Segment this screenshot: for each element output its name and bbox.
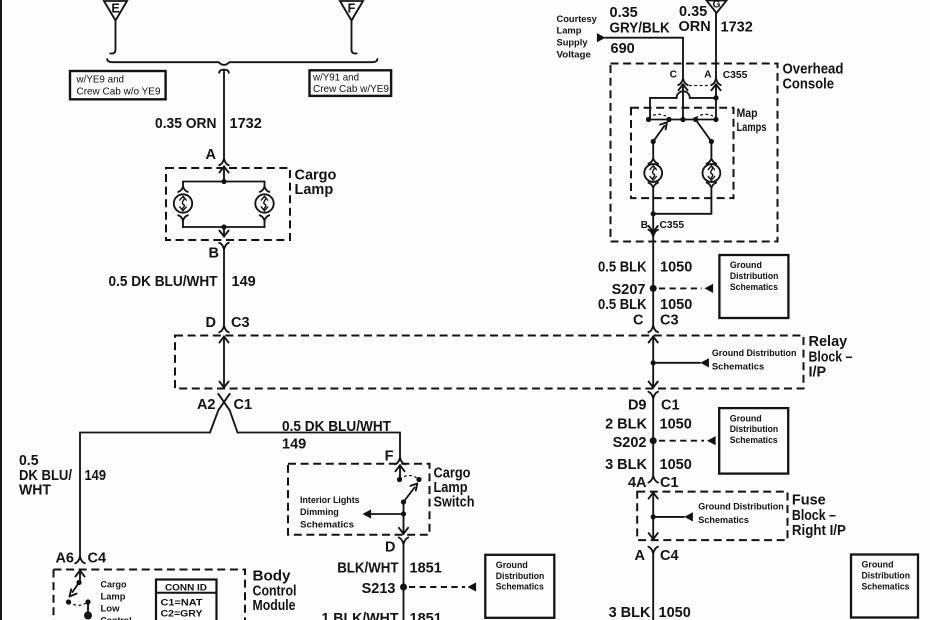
label Cargo Lamp Low Control xyxy=(101,579,132,620)
wire through relay block (left) xyxy=(219,337,228,388)
connector C C3 xyxy=(648,326,658,333)
svg-text:149: 149 xyxy=(282,437,306,453)
map lamps dashed box xyxy=(631,108,734,198)
connector A of C355 xyxy=(704,70,721,98)
svg-text:S202: S202 xyxy=(613,435,647,451)
pin B label xyxy=(209,246,219,262)
svg-text:C355: C355 xyxy=(660,220,685,231)
svg-text:GRY/BLK: GRY/BLK xyxy=(610,21,671,37)
svg-text:Distribution: Distribution xyxy=(496,570,545,581)
svg-text:Crew Cab w/YE9: Crew Cab w/YE9 xyxy=(313,84,389,95)
svg-text:Courtesy: Courtesy xyxy=(557,13,598,24)
CONN ID table xyxy=(156,580,217,620)
pin D / C3 labels xyxy=(206,315,250,331)
svg-text:E: E xyxy=(111,2,119,16)
wire split Y below A2 C1 xyxy=(210,410,238,432)
svg-text:Distribution: Distribution xyxy=(730,270,779,281)
label 0.5 DK BLU/WHT 149 xyxy=(109,274,256,290)
svg-text:C1: C1 xyxy=(660,475,679,491)
svg-text:Module: Module xyxy=(253,598,296,614)
off-page connector E xyxy=(104,1,127,21)
label Cargo Lamp Switch xyxy=(434,465,475,510)
map lamp switch dashed arcs xyxy=(649,114,717,118)
svg-text:3 BLK: 3 BLK xyxy=(609,605,651,620)
label Cargo Lamp xyxy=(295,168,337,199)
svg-text:1851: 1851 xyxy=(410,611,442,620)
svg-text:Control: Control xyxy=(253,583,297,599)
splice S202 xyxy=(613,435,716,451)
svg-text:C2=GRY: C2=GRY xyxy=(161,608,204,619)
label 0.35 ORN 1732 xyxy=(155,116,262,132)
connector A6 C4 xyxy=(75,557,85,564)
node: relay block ground ref junction xyxy=(651,358,709,367)
page left border artifact xyxy=(0,0,2,620)
svg-text:Distribution: Distribution xyxy=(862,570,911,581)
off-page connector F xyxy=(340,1,363,21)
option label box w/Y91 xyxy=(310,70,392,96)
svg-text:Fuse: Fuse xyxy=(792,493,826,509)
svg-text:A6: A6 xyxy=(55,551,74,567)
map lamp switch blade left xyxy=(651,122,667,144)
svg-text:w/YE9 and: w/YE9 and xyxy=(76,75,125,86)
svg-text:690: 690 xyxy=(611,41,635,57)
wire 0.5 BLK 1050 (console to S207) xyxy=(652,237,654,326)
node: cargo lamp bottom rail xyxy=(183,224,265,229)
label 2 BLK 1050 xyxy=(605,417,692,433)
svg-text:0.5 DK BLU/WHT: 0.5 DK BLU/WHT xyxy=(109,274,218,290)
options bus wire xyxy=(107,59,377,159)
svg-text:CONN ID: CONN ID xyxy=(165,581,207,592)
svg-text:Cargo: Cargo xyxy=(101,579,127,590)
wire to body control module xyxy=(80,433,210,557)
wire 0.5 DK BLU/WHT 149 (B to D) xyxy=(223,250,225,326)
wire from E to options bus xyxy=(110,21,115,54)
svg-text:Ground Distribution: Ground Distribution xyxy=(698,501,784,512)
cargo lamp bulb 2 xyxy=(255,182,273,228)
label 0.35 ORN 1732 (right) xyxy=(679,4,753,36)
switch wire to pin D xyxy=(399,502,408,534)
svg-text:Lamp: Lamp xyxy=(557,25,582,36)
svg-text:ORN: ORN xyxy=(679,19,711,35)
svg-text:Switch: Switch xyxy=(434,495,475,511)
svg-text:F: F xyxy=(348,2,356,16)
svg-text:Overhead: Overhead xyxy=(783,62,844,78)
fuse block right I/P dashed box xyxy=(637,492,787,540)
splice S213 xyxy=(362,581,476,597)
label Fuse Block - Right I/P xyxy=(792,493,846,539)
svg-text:D: D xyxy=(385,540,395,556)
svg-text:I/P: I/P xyxy=(809,365,827,381)
wire 3 BLK 1050 xyxy=(652,441,654,476)
svg-text:Schematics: Schematics xyxy=(862,580,910,591)
svg-text:Right I/P: Right I/P xyxy=(792,523,846,539)
svg-text:Relay: Relay xyxy=(809,334,848,350)
connector at pin A xyxy=(219,159,229,182)
wire through fuse block xyxy=(649,493,658,539)
connector 4A C1 xyxy=(648,476,658,483)
svg-text:1050: 1050 xyxy=(659,605,691,620)
wire from F to options bus xyxy=(352,21,357,54)
dashed link between C355 halves xyxy=(689,85,710,87)
svg-text:S207: S207 xyxy=(612,282,646,298)
svg-text:C3: C3 xyxy=(231,315,250,331)
svg-text:w/Y91 and: w/Y91 and xyxy=(312,73,359,84)
svg-text:Block –: Block – xyxy=(792,508,836,524)
svg-text:Console: Console xyxy=(783,76,835,92)
svg-text:1732: 1732 xyxy=(721,20,753,36)
svg-text:Low: Low xyxy=(101,603,121,614)
label 0.5 BLK 1050 xyxy=(598,259,692,275)
wire A branch with hop over C xyxy=(650,91,719,119)
svg-text:149: 149 xyxy=(232,274,256,290)
svg-text:C1=NAT: C1=NAT xyxy=(161,597,203,608)
wire 0.35 ORN 1732 (G to console) xyxy=(715,13,717,78)
svg-text:BLK/WHT: BLK/WHT xyxy=(337,561,398,577)
svg-text:Voltage: Voltage xyxy=(557,49,591,60)
cargo lamp switch dashed box xyxy=(288,464,430,535)
label 0.5 DK BLU/WHT 149 (right) xyxy=(282,419,391,453)
svg-text:Lamps: Lamps xyxy=(737,120,767,134)
connector B of C355 xyxy=(641,214,685,237)
svg-text:C3: C3 xyxy=(660,313,679,329)
courtesy lamp supply voltage feed xyxy=(557,13,598,60)
svg-text:1050: 1050 xyxy=(660,297,692,313)
svg-text:Body: Body xyxy=(253,569,291,585)
svg-text:3 BLK: 3 BLK xyxy=(605,457,647,473)
pin D label xyxy=(385,540,395,556)
svg-text:C1: C1 xyxy=(661,398,680,414)
svg-text:1050: 1050 xyxy=(660,259,692,275)
svg-text:Distribution: Distribution xyxy=(730,423,779,434)
svg-text:2 BLK: 2 BLK xyxy=(605,417,647,433)
svg-text:1 BLK/WHT: 1 BLK/WHT xyxy=(322,611,399,620)
svg-text:WHT: WHT xyxy=(19,483,51,499)
svg-text:A: A xyxy=(635,548,646,564)
wire 2 BLK 1050 xyxy=(652,399,654,441)
svg-text:C4: C4 xyxy=(660,548,679,564)
svg-text:Block –: Block – xyxy=(809,349,853,365)
pin A of cargo lamp xyxy=(206,147,217,163)
pin C / C3 labels xyxy=(633,313,679,329)
label 3 BLK 1050 (bottom) xyxy=(609,605,691,620)
svg-text:0.5: 0.5 xyxy=(19,453,39,469)
svg-text:Schematics: Schematics xyxy=(712,361,764,372)
fuse block ground distribution note xyxy=(698,501,784,526)
ground distribution schematics box (S213) xyxy=(485,555,554,618)
pin F label xyxy=(385,449,394,465)
svg-text:0.5 DK BLU/WHT: 0.5 DK BLU/WHT xyxy=(282,419,391,435)
cargo lamp switch contacts xyxy=(397,476,422,505)
cargo lamp assembly box xyxy=(166,168,290,240)
svg-text:0.35: 0.35 xyxy=(679,4,707,20)
svg-text:149: 149 xyxy=(85,468,107,484)
svg-text:1851: 1851 xyxy=(410,561,442,577)
map lamp bulb right xyxy=(703,142,721,214)
connector at pin D xyxy=(399,538,409,545)
svg-text:1050: 1050 xyxy=(660,417,692,433)
body control module dashed box xyxy=(54,570,246,620)
label Interior Lights Dimming Schematics xyxy=(300,494,360,529)
map lamp switch blade right xyxy=(696,120,714,145)
map lamp supply rail xyxy=(646,117,719,122)
svg-text:Schematics: Schematics xyxy=(730,434,778,445)
label 0.5 DK BLU/WHT 149 (left) xyxy=(19,453,106,499)
cargo lamp bulb 1 xyxy=(174,182,192,228)
svg-text:0.5 BLK: 0.5 BLK xyxy=(598,259,647,275)
label BLK/WHT 1851 xyxy=(337,561,442,577)
svg-text:D: D xyxy=(206,315,216,331)
svg-text:B: B xyxy=(209,246,219,262)
svg-text:1050: 1050 xyxy=(660,457,692,473)
map lamp bulb left xyxy=(644,142,662,214)
ground distribution schematics box (S202) xyxy=(719,408,788,474)
svg-text:Dimming: Dimming xyxy=(300,506,339,517)
label Map Lamps xyxy=(737,106,767,134)
splice S207 xyxy=(612,282,713,298)
svg-text:Ground: Ground xyxy=(730,259,762,270)
svg-text:0.35 ORN: 0.35 ORN xyxy=(155,116,217,132)
connector at pin F xyxy=(395,458,405,465)
label 0.35 GRY/BLK 690 xyxy=(610,5,671,57)
node: fuse block ground ref junction xyxy=(651,512,693,521)
svg-text:Schematics: Schematics xyxy=(300,518,354,529)
svg-text:C1: C1 xyxy=(234,397,253,413)
label C355 xyxy=(723,70,748,81)
svg-text:D9: D9 xyxy=(628,398,647,414)
svg-text:Schematics: Schematics xyxy=(496,581,544,592)
connector D C3 xyxy=(219,326,229,333)
svg-text:A2: A2 xyxy=(197,397,216,413)
svg-text:Ground: Ground xyxy=(496,559,528,570)
connector A2 C1 xyxy=(197,394,252,413)
svg-text:G: G xyxy=(712,0,720,11)
svg-text:S213: S213 xyxy=(362,581,396,597)
wire through relay block (right) xyxy=(649,337,658,388)
BCM input arrow xyxy=(75,571,84,583)
switch input arrow xyxy=(395,465,404,479)
svg-text:Lamp: Lamp xyxy=(101,591,126,602)
svg-text:Map: Map xyxy=(737,106,758,120)
svg-text:Ground: Ground xyxy=(730,412,762,423)
label 0.5 BLK 1050 (below S207) xyxy=(598,297,692,313)
wire BLK/WHT 1851 xyxy=(403,544,405,620)
svg-text:A: A xyxy=(704,70,712,81)
relay block ground distribution note xyxy=(712,347,797,372)
svg-text:0.5 BLK: 0.5 BLK xyxy=(598,297,647,313)
ground distribution schematics box (S207) xyxy=(719,255,788,318)
svg-text:Cargo: Cargo xyxy=(434,465,471,481)
cargo lamp low control switch in BCM xyxy=(66,580,92,620)
node: map lamps return rail xyxy=(651,211,712,216)
overhead console dashed box xyxy=(611,64,778,242)
svg-text:C4: C4 xyxy=(88,551,107,567)
svg-text:Ground Distribution: Ground Distribution xyxy=(712,347,797,358)
pin 4A / C1 labels xyxy=(628,475,679,491)
svg-text:Schematics: Schematics xyxy=(698,514,749,525)
option label box w/YE9 xyxy=(70,71,166,99)
connector A C4 xyxy=(635,547,679,564)
svg-text:1732: 1732 xyxy=(230,116,262,132)
feed arrow and wire 0.35 GRY/BLK 690 xyxy=(597,33,683,78)
svg-text:Supply: Supply xyxy=(557,37,589,48)
svg-text:Lamp: Lamp xyxy=(295,182,334,198)
wire A to map lamp rail xyxy=(715,98,717,120)
pin A6 / C4 labels xyxy=(55,551,106,567)
svg-text:Control: Control xyxy=(101,615,132,620)
label 1 BLK/WHT 1851 xyxy=(322,611,442,620)
interior lights dimming ref arrow xyxy=(363,509,407,518)
svg-text:A: A xyxy=(206,147,217,163)
label Relay Block - I/P xyxy=(809,334,853,381)
label Overhead Console xyxy=(783,62,844,93)
connector at pin B xyxy=(219,227,229,250)
svg-text:0.35: 0.35 xyxy=(610,5,638,21)
svg-text:Schematics: Schematics xyxy=(730,281,778,292)
wire to cargo lamp switch xyxy=(238,433,401,458)
svg-text:C: C xyxy=(670,70,678,81)
off-page connector G xyxy=(707,0,727,13)
svg-text:Ground: Ground xyxy=(862,559,894,570)
svg-text:Lamp: Lamp xyxy=(434,480,468,496)
svg-text:4A: 4A xyxy=(628,475,647,491)
ground distribution schematics box (bottom right) xyxy=(851,555,918,618)
label 3 BLK 1050 xyxy=(605,457,692,473)
svg-text:C355: C355 xyxy=(723,70,748,81)
svg-text:Interior Lights: Interior Lights xyxy=(300,494,360,505)
node: cargo lamp top rail xyxy=(183,179,265,184)
connector D9 C1 xyxy=(628,392,680,414)
svg-text:C: C xyxy=(633,313,644,329)
svg-text:F: F xyxy=(385,449,394,465)
svg-text:Crew Cab w/o YE9: Crew Cab w/o YE9 xyxy=(77,86,161,97)
relay block I/P dashed box xyxy=(175,336,804,389)
connector C of C355 xyxy=(670,70,688,120)
wire 3 BLK 1050 (bottom) xyxy=(652,554,654,620)
label Body Control Module xyxy=(253,569,297,615)
svg-text:B: B xyxy=(641,220,648,231)
